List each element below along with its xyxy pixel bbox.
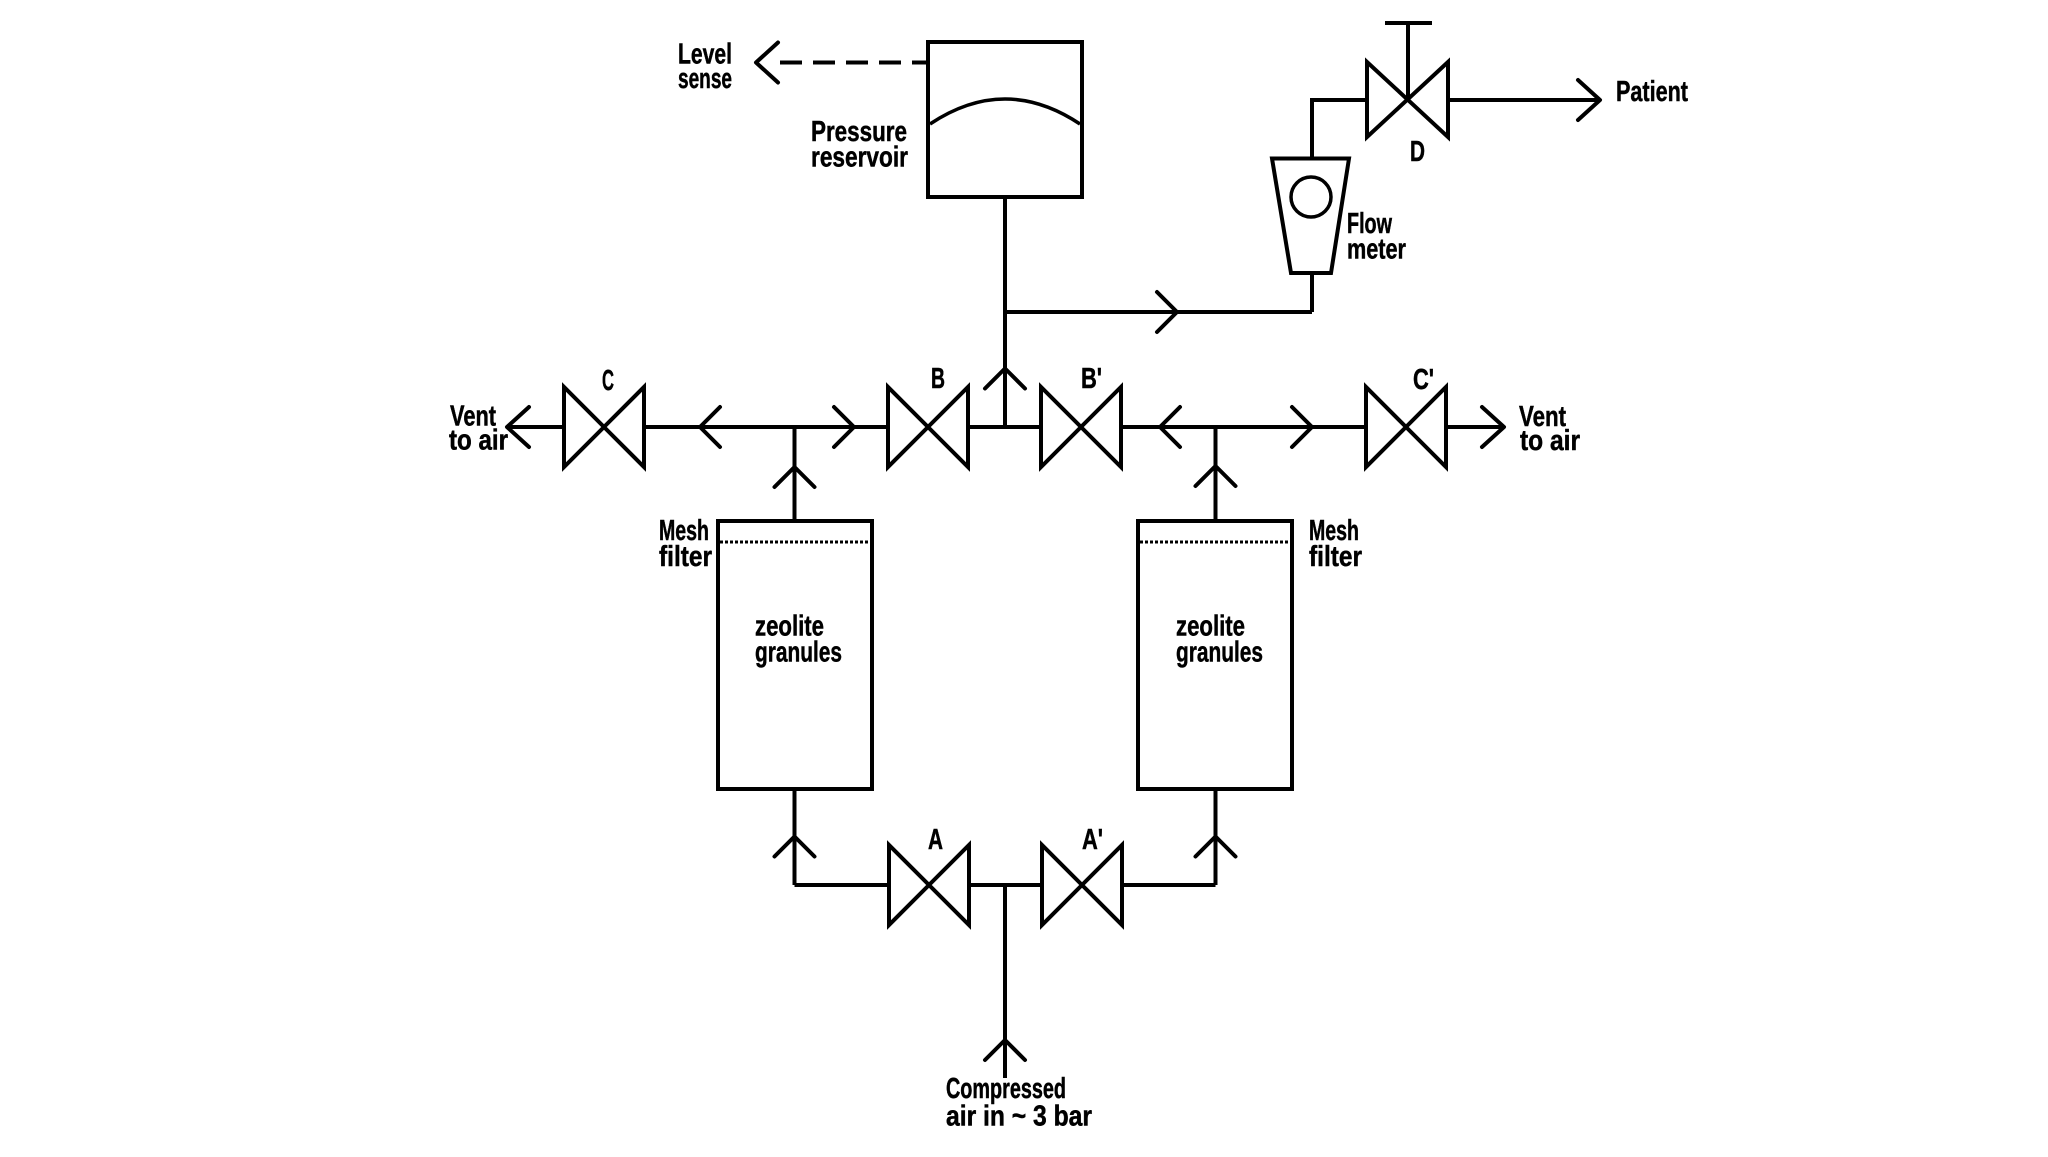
svg-text:filter: filter bbox=[1309, 541, 1362, 573]
flow chevron left of right column junction bbox=[1160, 407, 1180, 447]
right mesh filter dotted line bbox=[1140, 541, 1290, 544]
svg-text:granules: granules bbox=[755, 637, 842, 669]
valve Ap bowtie bbox=[1042, 845, 1122, 925]
svg-text:A: A bbox=[928, 824, 943, 856]
left mesh filter dotted line bbox=[720, 541, 870, 544]
wire right column bottom riser bbox=[1214, 789, 1218, 885]
valve D handle bar bbox=[1385, 21, 1432, 25]
wire valve D to patient bbox=[1448, 98, 1600, 102]
wire left column top riser bbox=[793, 427, 797, 521]
valve D bowtie bbox=[1367, 62, 1448, 137]
patient arrowhead bbox=[1578, 80, 1600, 120]
wire flow meter top stem bbox=[1310, 100, 1314, 159]
svg-text:C': C' bbox=[1413, 364, 1434, 396]
wire flow meter bottom stem bbox=[1310, 271, 1314, 312]
flow chevron right of left column junction bbox=[834, 407, 854, 447]
pressure reservoir diaphragm arc bbox=[930, 99, 1080, 124]
left zeolite column vessel bbox=[718, 521, 872, 789]
flow chevron up on right bottom riser bbox=[1196, 837, 1236, 857]
svg-text:meter: meter bbox=[1347, 234, 1406, 266]
wire flow meter to valve D bbox=[1310, 98, 1367, 102]
svg-text:B: B bbox=[931, 363, 945, 395]
valve A bowtie bbox=[889, 845, 969, 925]
svg-text:granules: granules bbox=[1176, 637, 1263, 669]
wire valve A to valve Ap bbox=[969, 883, 1042, 887]
svg-text:reservoir: reservoir bbox=[811, 142, 908, 174]
svg-text:A': A' bbox=[1082, 824, 1103, 856]
svg-text:air in ~ 3 bar: air in ~ 3 bar bbox=[946, 1101, 1092, 1133]
flow chevron up on left bottom riser bbox=[775, 837, 815, 857]
wire valve B to valve Bp bbox=[967, 425, 1042, 429]
level-sense arrowhead bbox=[756, 43, 778, 83]
flow chevron up on feed bbox=[985, 1040, 1025, 1060]
svg-text:filter: filter bbox=[659, 541, 712, 573]
valve B bowtie bbox=[888, 387, 968, 467]
svg-text:sense: sense bbox=[678, 63, 732, 95]
wire valve C to valve B bbox=[644, 425, 889, 429]
svg-text:to air: to air bbox=[449, 425, 508, 457]
svg-text:D: D bbox=[1410, 136, 1425, 168]
wire compressed air feed bbox=[1003, 885, 1007, 1078]
wire vent to valve C bbox=[507, 425, 564, 429]
flow chevron left of left column junction bbox=[700, 407, 720, 447]
valve Cp bowtie bbox=[1366, 387, 1446, 467]
flow meter float bbox=[1291, 177, 1331, 217]
valve C bowtie bbox=[564, 387, 644, 467]
flow chevron up on left top riser bbox=[775, 467, 815, 487]
wire branch to flow meter bbox=[1003, 310, 1312, 314]
wire valve Bp to valve Cp bbox=[1120, 425, 1367, 429]
wire valve Ap to right riser bbox=[1122, 883, 1216, 887]
valve Bp bowtie bbox=[1041, 387, 1121, 467]
svg-text:C: C bbox=[602, 365, 614, 397]
flow chevron right on branch bbox=[1157, 292, 1177, 332]
left vent arrowhead bbox=[507, 407, 529, 447]
pressure reservoir vessel bbox=[928, 42, 1082, 197]
right zeolite column vessel bbox=[1138, 521, 1292, 789]
wire valve Cp to vent bbox=[1446, 425, 1504, 429]
flow chevron right of right column junction bbox=[1292, 407, 1312, 447]
right vent arrowhead bbox=[1482, 407, 1504, 447]
flow meter body bbox=[1272, 159, 1349, 274]
flow chevron up on right top riser bbox=[1196, 466, 1236, 486]
valve D stem bbox=[1406, 23, 1410, 100]
wire right column top riser bbox=[1214, 427, 1218, 521]
wire left column bottom riser bbox=[793, 789, 797, 885]
wire reservoir riser bbox=[1003, 197, 1007, 427]
svg-text:B': B' bbox=[1081, 363, 1102, 395]
svg-text:to air: to air bbox=[1520, 425, 1580, 457]
wire left riser to valve A bbox=[795, 883, 890, 887]
svg-text:Patient: Patient bbox=[1616, 76, 1688, 108]
level-sense dashed signal line bbox=[780, 61, 928, 65]
flow chevron up on reservoir riser bbox=[985, 369, 1025, 389]
